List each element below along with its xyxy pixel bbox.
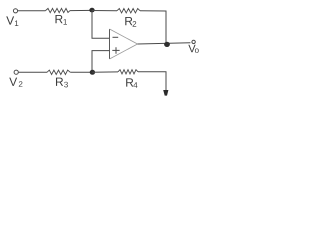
node output junction [164, 42, 170, 47]
resistor R1 label [55, 15, 66, 25]
wire R3 to node B [70, 71, 92, 73]
resistor R1 [46, 8, 71, 12]
resistor R3 [47, 70, 70, 74]
wire non-inverting input from node B [92, 51, 110, 73]
op-amp plus sign [112, 47, 119, 54]
wire op-amp output to Vo [138, 43, 191, 44]
resistor R4 [118, 70, 138, 74]
op-amp U1 [110, 29, 138, 59]
wire V1 to R1 [18, 10, 46, 12]
wire R1 to node A [70, 9, 92, 11]
wire node A down to inverting input [92, 10, 110, 38]
op-amp minus sign [113, 36, 119, 38]
resistor R2 label [125, 17, 136, 27]
resistor R2 [117, 9, 140, 13]
wire R2 to top-right corner [140, 11, 166, 44]
node A junction [89, 8, 94, 13]
wire node A to R2 [92, 10, 117, 12]
node Vo terminal [192, 40, 195, 43]
wire V2 to R3 [19, 71, 48, 73]
node V1 label [6, 16, 18, 26]
resistor R3 label [56, 78, 68, 88]
wire R4 to ground [138, 72, 166, 91]
node V1 terminal [13, 9, 17, 13]
wire node B to R4 [92, 71, 118, 73]
node B junction [90, 70, 95, 75]
ground [163, 90, 168, 96]
node Vo label [188, 45, 198, 53]
resistor R4 label [126, 78, 137, 87]
node V2 label [9, 78, 22, 87]
node V2 terminal [14, 70, 18, 74]
